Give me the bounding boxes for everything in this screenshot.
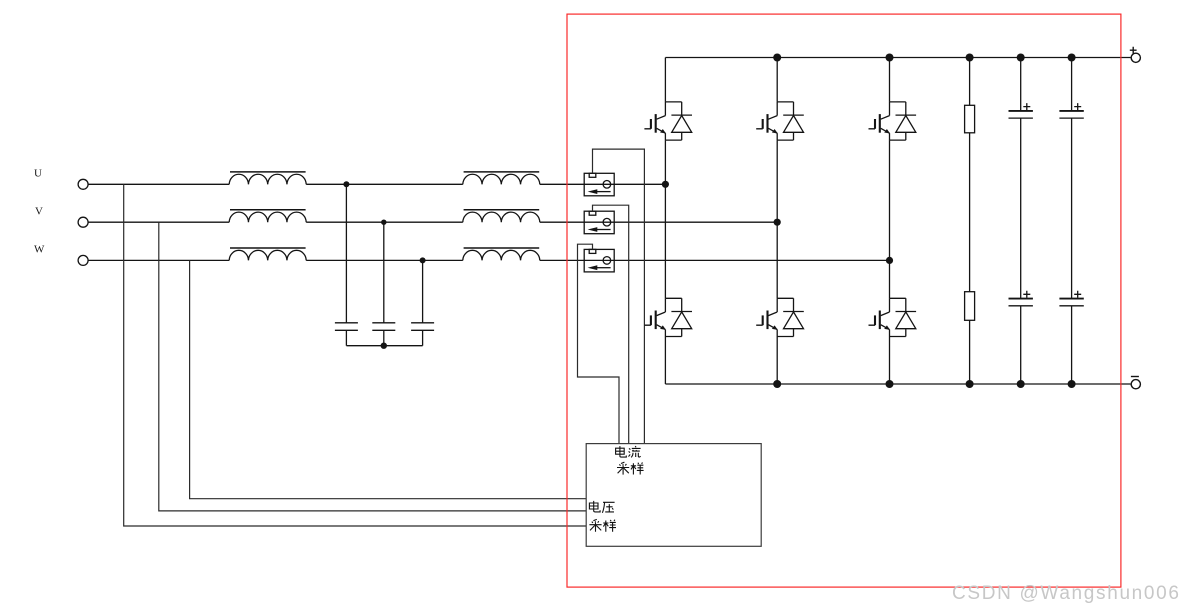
node V to leg2 xyxy=(774,219,781,226)
terminal V xyxy=(78,217,88,227)
wire W phase xyxy=(88,259,889,261)
wire leg 1 vertical xyxy=(664,58,666,385)
node DC+ cap column 2 xyxy=(1068,54,1076,62)
wire S1 signal xyxy=(593,149,645,444)
wire cap column 2 xyxy=(1071,58,1073,385)
wire S2 signal xyxy=(593,205,629,443)
current sensor S3 (phase W) xyxy=(584,249,614,272)
wire C3 bottom lead xyxy=(422,330,424,345)
red boundary rectangle xyxy=(567,14,1121,587)
capacitor C7 (lower electrolytic, column 2) xyxy=(1059,291,1083,306)
wire filter-cap dropper V xyxy=(383,222,385,323)
terminal W xyxy=(78,255,88,265)
node DC- leg3 xyxy=(886,380,894,388)
inductor L6 (converter side, phase W) xyxy=(463,248,540,260)
node DC- cap column 1 xyxy=(1017,380,1025,388)
terminal U xyxy=(78,179,88,189)
inductor L3 (grid side, phase W) xyxy=(229,248,306,260)
wire U phase xyxy=(88,183,665,185)
wire C1 bottom lead xyxy=(345,330,347,345)
wire leg 3 vertical xyxy=(889,58,891,385)
wire resistor column xyxy=(969,58,971,385)
inductor L1 (grid side, phase U) xyxy=(229,172,306,184)
wire filter-cap dropper W xyxy=(422,260,424,322)
wire DC- bus xyxy=(665,383,1130,385)
svg-text:V: V xyxy=(35,205,43,217)
capacitor C6 (upper electrolytic, column 2) xyxy=(1059,103,1083,118)
node DC- cap column 2 xyxy=(1068,380,1076,388)
label voltage sampling line1 (dian ya) xyxy=(589,501,614,513)
wire filter-cap common bus xyxy=(346,345,422,347)
node DC+ resistor column xyxy=(966,54,974,62)
transistor Q4 (lower IGBT leg1) with diode xyxy=(644,298,692,336)
label voltage sampling line2 (cai yang) xyxy=(589,519,616,531)
resistor R2 (lower bleeder) xyxy=(965,292,975,321)
label current sampling line1 (dian liu) xyxy=(616,446,641,457)
wire cap column 1 xyxy=(1020,58,1022,385)
wire voltage sense W xyxy=(190,260,587,498)
inductor L5 (converter side, phase V) xyxy=(463,210,540,222)
terminal DC- xyxy=(1131,377,1141,389)
node DC- resistor column xyxy=(966,380,974,388)
node DC+ cap column 1 xyxy=(1017,54,1025,62)
capacitor C4 (upper electrolytic, column 1) xyxy=(1009,103,1033,118)
current sensor S1 (phase U) xyxy=(584,173,614,196)
transistor Q1 (upper IGBT leg1) with diode xyxy=(644,102,692,140)
node U cap tap xyxy=(343,181,349,187)
node W cap tap xyxy=(420,257,426,263)
wire C2 bottom lead xyxy=(383,330,385,345)
wire voltage sense V xyxy=(159,222,586,511)
transistor Q3 (upper IGBT leg3) with diode xyxy=(869,102,917,140)
node DC- leg2 xyxy=(773,380,781,388)
resistor R1 (upper bleeder) xyxy=(965,105,975,133)
node DC+ leg2 xyxy=(773,54,781,62)
node W to leg3 xyxy=(886,257,893,264)
node U to leg1 xyxy=(662,181,669,188)
transistor Q6 (lower IGBT leg3) with diode xyxy=(869,298,917,336)
wire V phase xyxy=(88,221,777,223)
wire leg 2 vertical xyxy=(776,58,778,385)
wire S3 signal xyxy=(578,244,620,443)
node filter star point xyxy=(381,343,387,349)
capacitor C3 (filter, phase W) xyxy=(411,323,434,331)
transistor Q2 (upper IGBT leg2) with diode xyxy=(756,102,804,140)
inductor L2 (grid side, phase V) xyxy=(229,210,306,222)
terminal DC+ xyxy=(1130,47,1141,63)
capacitor C1 (filter, phase U) xyxy=(335,323,358,331)
watermark CSDN xyxy=(952,583,1184,605)
capacitor C5 (lower electrolytic, column 1) xyxy=(1009,291,1033,306)
node DC+ leg3 xyxy=(886,54,894,62)
wire DC+ bus xyxy=(665,57,1130,59)
capacitor C2 (filter, phase V) xyxy=(372,323,395,331)
current sensor S2 (phase V) xyxy=(584,211,614,234)
transistor Q5 (lower IGBT leg2) with diode xyxy=(756,298,804,336)
node V cap tap xyxy=(381,220,386,225)
control box (sampling/controller) xyxy=(586,444,761,547)
wire filter-cap dropper U xyxy=(345,184,347,322)
label current sampling line2 (cai yang) xyxy=(617,462,644,474)
svg-text:W: W xyxy=(34,244,45,256)
inductor L4 (converter side, phase U) xyxy=(463,172,540,184)
svg-text:U: U xyxy=(34,167,42,179)
wire voltage sense U xyxy=(124,184,587,526)
